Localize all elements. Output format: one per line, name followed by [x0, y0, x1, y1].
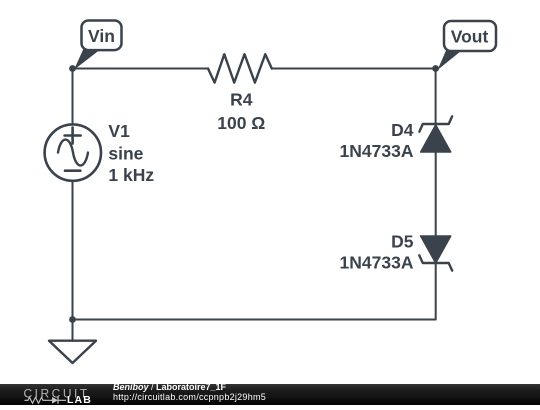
label V1 value: [108, 121, 154, 185]
flag Vout: [444, 21, 496, 51]
diode D4 zener 1N4733A: [419, 116, 452, 152]
wire left vertical lower (V1 bottom to ground node): [72, 181, 74, 320]
wire right vertical lower (D5 to bottom wire): [435, 263, 437, 320]
svg-text:Vout: Vout: [451, 27, 489, 47]
wire right vertical middle (D4 to D5): [435, 152, 437, 236]
svg-text:R4: R4: [230, 89, 253, 109]
label D5 value: [340, 232, 414, 273]
svg-text:100 Ω: 100 Ω: [217, 113, 265, 133]
svg-text:1N4733A: 1N4733A: [340, 141, 414, 161]
wire left vertical upper (Vin node to V1 top): [72, 69, 74, 125]
credit text: [113, 383, 266, 403]
resistor R4: [208, 54, 272, 82]
diode D5 zener 1N4733A: [419, 236, 452, 271]
voltage source V1: [45, 124, 101, 180]
label D4 value: [340, 120, 414, 161]
node ground junction dot: [69, 316, 76, 323]
wire top horizontal right (resistor to Vout node): [272, 68, 436, 70]
svg-text:Vin: Vin: [88, 26, 115, 46]
ground stub wire: [72, 320, 74, 341]
label R4 value: [217, 89, 265, 133]
flag tail Vin: [74, 47, 99, 70]
wire bottom horizontal: [73, 319, 436, 321]
svg-text:1 kHz: 1 kHz: [108, 165, 154, 185]
svg-text:1N4733A: 1N4733A: [340, 252, 414, 272]
CircuitLab logo: [22, 384, 97, 405]
node Vin junction dot: [69, 65, 76, 72]
svg-text:sine: sine: [108, 143, 143, 163]
flag Vin: [82, 21, 122, 51]
ground: [49, 341, 96, 363]
svg-text:LAB: LAB: [67, 394, 92, 405]
wire top horizontal left (Vin node to resistor): [73, 68, 209, 70]
svg-text:D5: D5: [391, 232, 414, 252]
svg-text:V1: V1: [108, 121, 130, 141]
node Vout junction dot: [432, 65, 439, 72]
flag tail Vout: [438, 47, 462, 70]
wire right vertical upper (Vout node to D4): [435, 69, 437, 125]
svg-text:D4: D4: [391, 120, 414, 140]
footer bar: [0, 384, 540, 405]
